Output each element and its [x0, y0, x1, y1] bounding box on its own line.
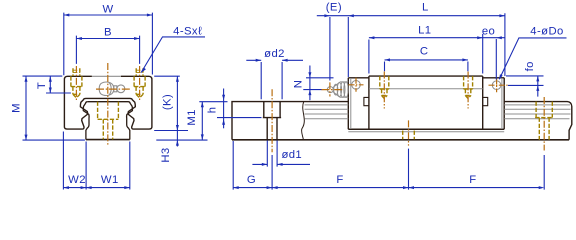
svg-text:F: F [336, 174, 343, 186]
svg-text:G: G [247, 174, 256, 186]
svg-text:C: C [420, 46, 429, 58]
svg-text:W1: W1 [101, 174, 119, 186]
svg-text:M: M [10, 103, 22, 113]
svg-text:4-øDo: 4-øDo [530, 26, 563, 38]
svg-text:h: h [206, 107, 218, 114]
svg-text:(K): (K) [161, 94, 173, 110]
svg-text:M1: M1 [186, 109, 198, 126]
svg-text:W: W [102, 3, 113, 15]
svg-text:eo: eo [482, 25, 495, 37]
svg-text:fo: fo [524, 61, 536, 71]
svg-text:N: N [293, 80, 305, 89]
svg-text:ød2: ød2 [264, 48, 285, 60]
svg-text:L: L [422, 1, 429, 13]
svg-text:ød1: ød1 [281, 149, 302, 161]
svg-text:F: F [469, 174, 476, 186]
svg-text:(E): (E) [326, 1, 342, 13]
svg-text:H3: H3 [160, 147, 172, 162]
svg-text:T: T [36, 82, 48, 89]
svg-text:L1: L1 [418, 24, 431, 36]
svg-text:B: B [104, 26, 112, 38]
svg-text:W2: W2 [68, 174, 86, 186]
svg-text:4-Sxℓ: 4-Sxℓ [173, 25, 202, 37]
